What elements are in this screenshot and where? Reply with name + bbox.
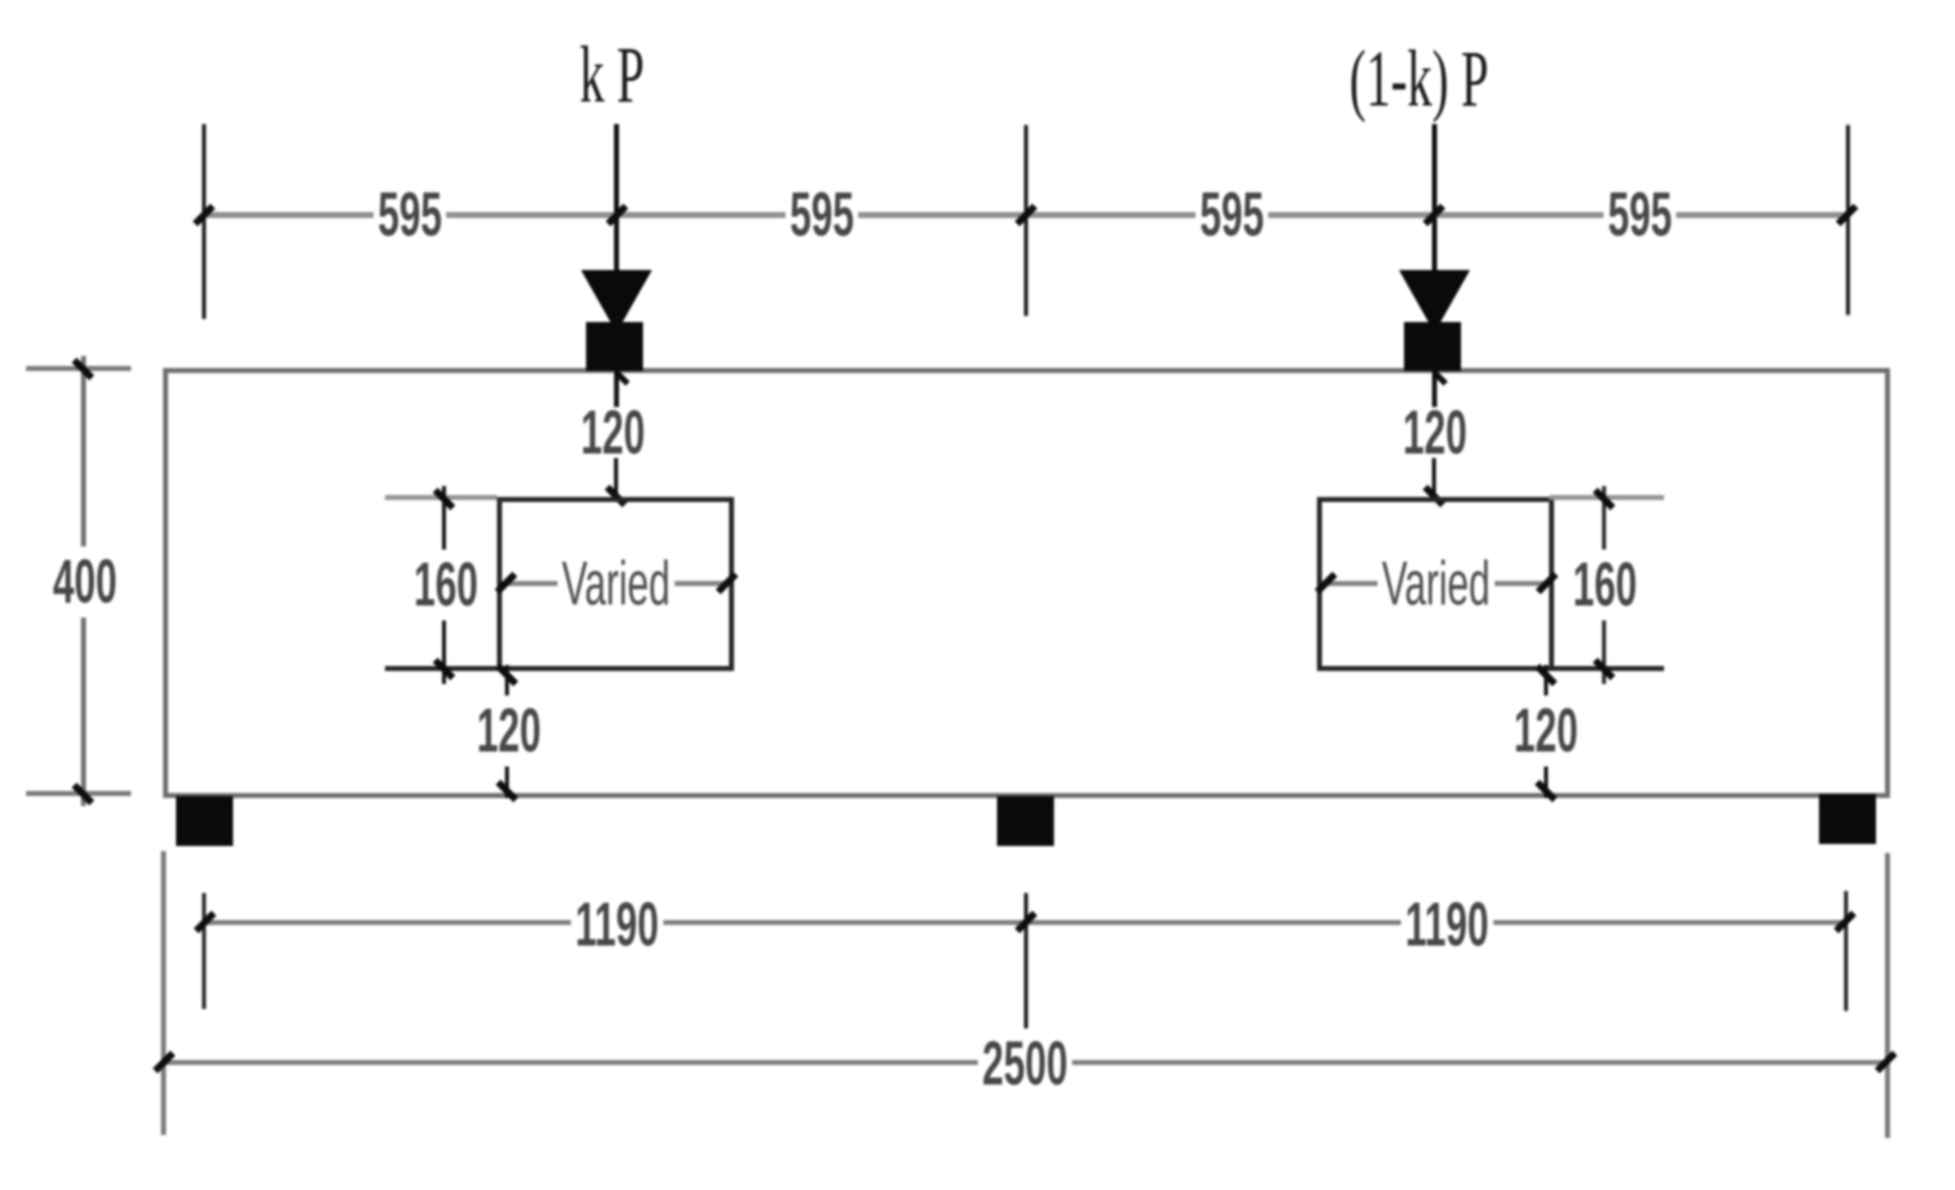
- 400 dim line: [81, 356, 86, 806]
- 120 bottom-left dim line: [505, 665, 509, 798]
- extension line middle: [1024, 125, 1028, 316]
- tick 160 left top: [433, 488, 456, 511]
- label 1190 left: [571, 890, 663, 961]
- opening right: [1317, 497, 1554, 671]
- line 120 top-right lower: [1432, 458, 1436, 500]
- label 595 d: [1604, 180, 1677, 251]
- label 595 a: [374, 180, 447, 251]
- label 120 top-right: [1403, 398, 1467, 469]
- load plate left: [586, 322, 643, 371]
- 1190 middle extension: [1024, 893, 1028, 1040]
- extension line right: [1846, 125, 1850, 315]
- load arrow right: [1399, 270, 1470, 324]
- support left: [176, 796, 233, 846]
- 1190 left extension: [202, 893, 206, 1009]
- tick 160 right top: [1593, 488, 1616, 511]
- dimension line 2500: [163, 1060, 1888, 1065]
- label 160 right: [1569, 550, 1642, 621]
- 120 bottom-right dim line: [1544, 665, 1548, 798]
- 160 left bottom tick: [385, 666, 500, 671]
- label 595 b: [786, 180, 859, 251]
- label 2500: [978, 1029, 1072, 1100]
- dimension line 1190 row: [204, 920, 1846, 925]
- label 400: [49, 547, 122, 618]
- load plate right: [1404, 322, 1461, 371]
- tick 120 bl bottom: [496, 780, 519, 803]
- beam outline: [163, 368, 1890, 798]
- opening left: [497, 497, 734, 671]
- tick varied2 left end: [1315, 572, 1338, 595]
- load line left: [614, 124, 619, 274]
- tick 1190 right: [1834, 911, 1857, 934]
- tick 2500 left: [153, 1051, 176, 1074]
- 160 right bottom tick: [1549, 666, 1664, 671]
- 160 left top tick: [385, 495, 497, 500]
- tick at beam top right load: [1432, 370, 1448, 386]
- tick 120 bl top: [496, 664, 519, 687]
- 160 right dim line: [1602, 486, 1606, 684]
- 2500 right extension: [1885, 853, 1890, 1138]
- line 120 top-left lower: [614, 458, 618, 500]
- label 120 bottom-left: [473, 696, 546, 767]
- tick at opening top right: [1423, 485, 1446, 508]
- tick varied2 right end: [1536, 572, 1559, 595]
- 2500 left extension: [161, 851, 166, 1135]
- varied line right: [1322, 581, 1550, 586]
- tick 120 br top: [1535, 664, 1558, 687]
- tick 160 left bottom: [433, 658, 456, 681]
- 160 left dim line: [442, 486, 446, 684]
- stub below left plate: [614, 371, 619, 407]
- tick: [193, 204, 216, 227]
- varied line left: [502, 581, 730, 586]
- label 1190 right: [1401, 890, 1493, 961]
- tick 120 br bottom: [1535, 780, 1558, 803]
- label 160 left: [410, 550, 483, 621]
- tick 1190 middle: [1015, 911, 1038, 934]
- load arrow left: [581, 270, 652, 324]
- 400 bottom tick: [26, 791, 131, 796]
- tick 2500 right: [1875, 1051, 1898, 1074]
- support middle: [997, 796, 1054, 846]
- label Varied left: [558, 549, 675, 620]
- load label (1-k) P: [1349, 35, 1488, 126]
- tick 400 bottom: [72, 783, 95, 806]
- label Varied right: [1378, 549, 1495, 620]
- tick varied right end: [716, 572, 739, 595]
- tick: [606, 204, 629, 227]
- tick 160 right bottom: [1593, 658, 1616, 681]
- label 120 top-left: [581, 398, 645, 469]
- tick 1190 left: [194, 911, 217, 934]
- load line right: [1432, 124, 1437, 274]
- 1190 right extension: [1844, 891, 1848, 1011]
- stub below right plate: [1432, 371, 1437, 407]
- dimension line 595 row: [204, 212, 1848, 218]
- tick at beam top left load: [614, 370, 630, 386]
- tick varied left end: [495, 572, 518, 595]
- tick: [1836, 204, 1859, 227]
- 160 right top tick: [1549, 495, 1664, 500]
- tick: [1015, 204, 1038, 227]
- tick at opening top left: [605, 485, 628, 508]
- support right: [1819, 794, 1876, 844]
- tick 400 top: [72, 358, 95, 381]
- tick: [1423, 204, 1446, 227]
- load label k P: [580, 31, 645, 122]
- label 595 c: [1196, 180, 1269, 251]
- extension line left: [202, 124, 206, 319]
- label 120 bottom-right: [1510, 696, 1583, 767]
- 400 top tick: [26, 366, 131, 371]
